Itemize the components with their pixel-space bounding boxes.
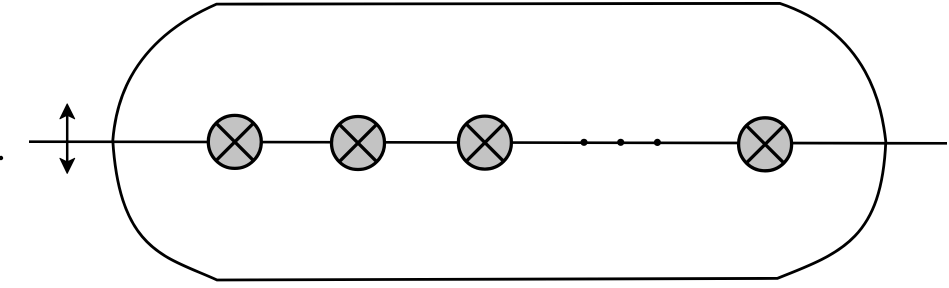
crossed circle 4 bbox=[739, 118, 792, 171]
crossed circle 3 bbox=[458, 116, 511, 169]
stray dot at left edge bbox=[0, 156, 3, 160]
double-headed vertical arrow bbox=[60, 104, 75, 173]
horizontal axis line bbox=[29, 142, 947, 144]
capsule boundary (long oval surface) bbox=[113, 3, 886, 280]
crossed circle 2 bbox=[332, 117, 385, 170]
crossed circle 1 bbox=[208, 115, 261, 168]
ellipsis dots bbox=[580, 139, 661, 146]
